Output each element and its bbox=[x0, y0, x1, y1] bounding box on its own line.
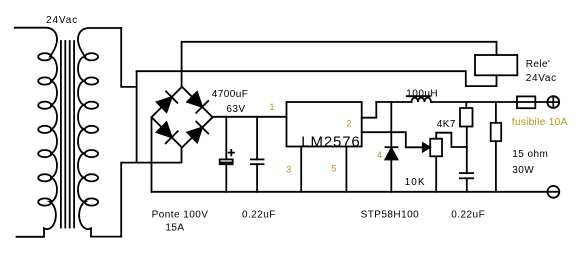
transformer T1 primary winding bbox=[15, 28, 57, 237]
svg-text:LM2576: LM2576 bbox=[301, 133, 360, 150]
svg-text:15A: 15A bbox=[165, 222, 184, 233]
wire bridge left corner to ground rail bbox=[151, 117, 153, 192]
capacitor C3 0.22uF plates bbox=[460, 173, 473, 192]
wire relay top pin bbox=[496, 42, 498, 55]
resistor R1 4K7 riser bbox=[465, 102, 467, 108]
svg-text:STP58H100: STP58H100 bbox=[361, 210, 420, 221]
relay K1 box bbox=[475, 55, 517, 75]
inductor L1 bumps bbox=[412, 98, 432, 102]
wire secondary top to AC node bbox=[121, 28, 136, 87]
capacitor C1 4700uF stem bbox=[225, 117, 227, 192]
wire pot top link to divider node bbox=[436, 133, 467, 147]
svg-text:10K: 10K bbox=[405, 177, 426, 188]
wire 15 ohm bottom bbox=[495, 141, 497, 192]
svg-text:4K7: 4K7 bbox=[437, 119, 456, 130]
terminal plus bbox=[547, 96, 559, 108]
svg-text:Ponte 100V: Ponte 100V bbox=[152, 210, 209, 221]
svg-text:4700uF: 4700uF bbox=[212, 89, 249, 100]
wire pin 3 to rail bbox=[300, 147, 302, 192]
wire output line with fuse feed bbox=[376, 101, 411, 103]
diode D3 bottom-left bbox=[157, 122, 178, 143]
svg-text:fusibile 10A: fusibile 10A bbox=[512, 117, 568, 128]
transformer T1 core bbox=[61, 41, 74, 228]
wire top line to bridge bbox=[182, 42, 497, 87]
op-amp U1 LM2576 box bbox=[287, 102, 362, 147]
wire bridge bottom corner riser bbox=[121, 148, 181, 237]
wire 4K7 bottom chain bbox=[466, 127, 468, 174]
wire inductor to plus terminal bbox=[431, 101, 547, 103]
svg-text:0.22uF: 0.22uF bbox=[242, 210, 276, 221]
bridge rectifier B1 diamond bbox=[152, 87, 213, 148]
capacitor C1 plus sign bbox=[229, 150, 234, 156]
wire relay return line bbox=[137, 71, 497, 86]
capacitor C1 plates bbox=[220, 159, 233, 164]
wire relay return vertical bbox=[136, 71, 138, 162]
svg-text:30W: 30W bbox=[512, 165, 534, 176]
diode D1 top-left bbox=[157, 91, 178, 112]
transformer T1 secondary winding bbox=[78, 28, 121, 237]
svg-text:5: 5 bbox=[331, 164, 336, 174]
svg-text:15 ohm: 15 ohm bbox=[512, 149, 548, 160]
svg-text:24Vac: 24Vac bbox=[526, 73, 557, 84]
wire pot bottom to rail bbox=[435, 156, 437, 192]
svg-text:100uH: 100uH bbox=[406, 89, 438, 100]
diode D4 bottom-right bbox=[187, 122, 208, 143]
terminal minus bbox=[548, 186, 560, 198]
svg-text:63V: 63V bbox=[226, 104, 245, 115]
wire pin 5 to rail bbox=[345, 147, 347, 192]
wire pin 2 stub and riser bbox=[362, 102, 377, 118]
diode D2 top-right bbox=[187, 92, 208, 113]
svg-text:0.22uF: 0.22uF bbox=[451, 210, 485, 221]
inductor L1 underline bbox=[407, 95, 430, 97]
resistor R3 15 ohm riser bbox=[495, 102, 497, 123]
fuse F1 box bbox=[517, 96, 535, 108]
capacitor C2 0.22uF bbox=[251, 117, 264, 192]
svg-text:Rele': Rele' bbox=[526, 59, 551, 70]
potentiometer R2 box bbox=[430, 139, 442, 157]
svg-text:2: 2 bbox=[347, 118, 352, 128]
wire pin 4 feedback path bbox=[362, 132, 424, 147]
resistor R1 4K7 box bbox=[460, 108, 473, 127]
ground rail bbox=[152, 191, 548, 193]
resistor R3 15 ohm box bbox=[491, 123, 502, 141]
diode D5 STP58H100 vertical bbox=[390, 102, 392, 192]
wire positive rail to regulator bbox=[213, 116, 287, 118]
diode D5 symbol bbox=[385, 147, 397, 159]
svg-text:3: 3 bbox=[286, 165, 291, 175]
svg-text:4: 4 bbox=[377, 150, 382, 160]
svg-text:24Vac: 24Vac bbox=[46, 15, 78, 26]
wiper arrow into potentiometer bbox=[423, 143, 430, 151]
svg-text:1: 1 bbox=[270, 102, 275, 112]
